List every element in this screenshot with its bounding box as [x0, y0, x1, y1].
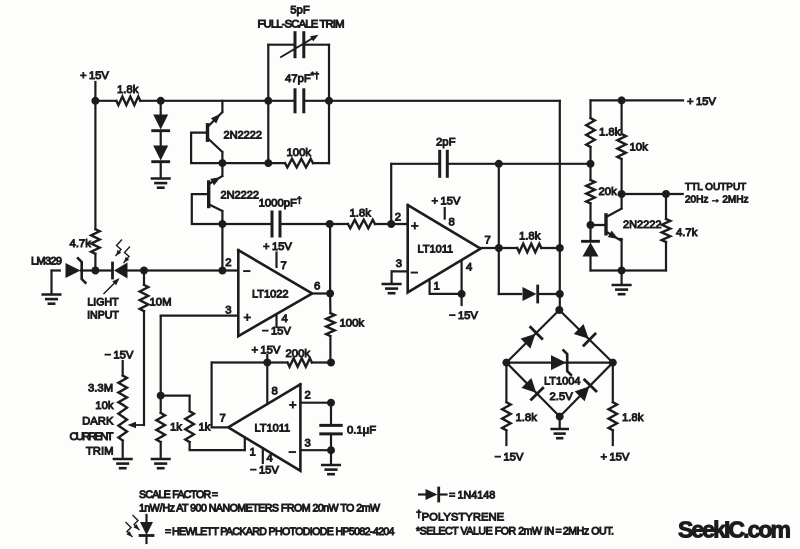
ground (0.1uF) [322, 465, 340, 474]
node bridge drive top [556, 244, 564, 252]
svg-text:−: − [243, 264, 251, 279]
node LT1011-1 pin2 [387, 220, 395, 228]
diode D8 (bridge LL) [521, 378, 542, 399]
node TTL collector [618, 190, 626, 198]
wire 2pF to divider [447, 163, 590, 165]
op-amp U2 LT1011 (comparator) [408, 205, 481, 292]
label 10k DARK CURRENT TRIM [70, 400, 114, 458]
node +15V/1.8k junction [91, 97, 99, 105]
node LM329/4.7k/photodiode [91, 267, 99, 275]
svg-text:LT1011: LT1011 [255, 423, 291, 435]
wire Q2 collector to node B [221, 211, 223, 224]
label 5pF FULL-SCALE TRIM [258, 5, 345, 31]
svg-text:4.7k: 4.7k [70, 238, 92, 250]
resistor 1.8k (bridge left) [502, 363, 537, 445]
svg-text:−: − [411, 265, 419, 280]
ground (1k) [152, 459, 170, 468]
svg-text:10k: 10k [95, 400, 114, 412]
diode D9 (bridge LR) [575, 380, 596, 401]
svg-text:0.1μF: 0.1μF [347, 425, 376, 437]
resistor R-1k #1 [156, 396, 182, 443]
label TTL OUTPUT 20Hz-2MHz [685, 182, 748, 206]
svg-text:1k: 1k [199, 422, 211, 434]
wire 1k #2 to U3 pin1 [190, 442, 245, 450]
wire output bus up [329, 224, 331, 294]
capacitor C1 5pF full-scale trim (variable) [268, 33, 329, 57]
svg-text:−: − [289, 445, 297, 460]
resistor 100k (to comparator divider) [326, 294, 364, 363]
svg-text:− 15V: − 15V [449, 310, 478, 322]
label +15V (bridge right) [601, 452, 630, 464]
node U2 pins 1-4 [458, 290, 466, 298]
label LM329 [31, 256, 62, 268]
wire 1k to ground [160, 442, 162, 458]
svg-text:1000pF†: 1000pF† [259, 195, 302, 210]
wire Q3 collector [620, 194, 622, 209]
wire LM329 anode [52, 271, 60, 294]
resistor 200k [286, 348, 312, 367]
svg-text:7: 7 [485, 235, 491, 247]
svg-text:7: 7 [220, 413, 226, 425]
pin 1 stub U3 [245, 437, 256, 458]
wire bridge edge LL [506, 363, 559, 417]
wire diode branch [499, 293, 521, 295]
svg-text:100k: 100k [287, 147, 312, 159]
node U3 pin3 [327, 446, 335, 454]
svg-text:4: 4 [267, 453, 273, 465]
svg-text:= HEWLETT PACKARD PHOTODIODE H: = HEWLETT PACKARD PHOTODIODE HP5082-4204 [165, 526, 395, 538]
ground (LM329) [43, 295, 61, 304]
svg-text:†POLYSTYRENE: †POLYSTYRENE [416, 510, 505, 524]
node 47pF right [325, 97, 333, 105]
wire feedback bus y=101 left segment [161, 100, 269, 102]
+15V supply label (top left) [80, 70, 109, 82]
zener D10 LT1004 2.5V [544, 350, 581, 403]
svg-text:6: 6 [314, 281, 320, 293]
svg-text:1.8k: 1.8k [599, 127, 621, 139]
diode legend symbol [419, 488, 447, 501]
svg-text:LIGHT: LIGHT [87, 297, 119, 309]
ground (output stage) [613, 285, 631, 294]
diode D1a (stack upper) [153, 101, 169, 131]
node A (Q1/Q2 junction) [218, 159, 226, 167]
svg-text:200k: 200k [286, 348, 311, 360]
wire 5pF right leg [328, 45, 330, 101]
wire bridge center [506, 362, 612, 364]
label pin 2 U2 [395, 212, 401, 224]
svg-text:1.8k: 1.8k [350, 208, 372, 220]
svg-text:= 1N4148: = 1N4148 [449, 490, 495, 502]
wire 200k rail [212, 361, 331, 363]
node 10M tap [140, 267, 148, 275]
capacitor C3 1000pF (polystyrene) [222, 195, 302, 236]
resistor 3.3M [88, 376, 127, 405]
resistor 1.8k (comparator out) [517, 231, 541, 253]
wire photodiode to LT1022 [128, 269, 239, 271]
resistor 1.8k (divider top) [586, 100, 621, 163]
svg-text:1.8k: 1.8k [516, 412, 538, 424]
svg-text:− 15V: − 15V [495, 452, 524, 464]
svg-text:20Hz → 2MHz: 20Hz → 2MHz [685, 195, 748, 206]
svg-text:100k: 100k [340, 318, 365, 330]
photodiode HP5082-4204 (light input) [113, 240, 130, 279]
svg-text:7: 7 [281, 260, 287, 272]
label SCALE FACTOR [139, 489, 218, 501]
node LT1022 output [326, 290, 334, 298]
node B (integrator summing node) [218, 220, 226, 228]
label scale factor detail [139, 503, 380, 515]
resistor 100k (feedback) [285, 147, 313, 167]
svg-text:1k: 1k [170, 422, 182, 434]
resistor 10M [140, 271, 172, 312]
node bridge right vertex [609, 359, 617, 367]
label pin 2 LT1022 [225, 257, 231, 269]
label pin 3 LT1022 [225, 305, 231, 317]
svg-text:− 15V: − 15V [262, 326, 291, 338]
label HP photodiode [165, 526, 395, 538]
node output bus top [326, 220, 334, 228]
pin 7 stub LT1022 +15V [263, 241, 292, 272]
ground (bridge) [552, 429, 568, 438]
zener D2 LM329 6.9V reference [66, 258, 86, 282]
pin 1 stub U2 [430, 279, 462, 294]
resistor 4.7k (photodiode bias) [70, 229, 100, 270]
wire node to photodiode [95, 269, 112, 271]
node emitter/ground [618, 267, 626, 275]
pin 4 stub LT1022 -15V [262, 313, 291, 338]
wire Q1 base loop [191, 133, 222, 164]
wire LT1022 output [312, 281, 330, 294]
svg-text:4: 4 [282, 313, 288, 325]
svg-text:8: 8 [272, 386, 278, 398]
wire feedback bus y=101 right segment to x=560 [329, 101, 560, 164]
wire U3 pin3 to ground [330, 450, 332, 464]
wire U3 output pin7 loop [212, 363, 229, 428]
svg-text:+ 15V: + 15V [601, 452, 630, 464]
wire LT1022 pin3 [161, 315, 239, 317]
node 4.7k tap [662, 190, 670, 198]
wire 10M down to trim wiper [143, 311, 145, 425]
node diode stack top [157, 97, 165, 105]
ground (U2 pin3) [383, 284, 401, 293]
op-amp U1 LT1022 [238, 250, 312, 336]
svg-text:1.8k: 1.8k [519, 231, 541, 243]
wire node B down to LT1022 pin 2 [221, 224, 223, 271]
wire U3 pin3 [300, 438, 331, 451]
node bridge left vertex [502, 359, 510, 367]
svg-text:2: 2 [395, 212, 401, 224]
wire 1000pF to node [280, 223, 348, 225]
capacitor C5 0.1uF [321, 403, 376, 451]
svg-text:DARK: DARK [82, 416, 114, 428]
label -15V (trim supply) [105, 350, 134, 362]
resistor 1.8k (bridge right) [609, 363, 644, 445]
node bridge top tap [556, 290, 564, 298]
resistor R-1k #2 [161, 396, 211, 443]
wire bridge edge UR [559, 310, 613, 363]
node 47pF left [264, 97, 272, 105]
label LIGHT INPUT with arrow [87, 278, 119, 322]
diode D1b (stack lower) [153, 132, 169, 162]
wire Q2 emitter to node A [221, 163, 223, 176]
label -15V (bridge left) [495, 452, 524, 464]
wire LM329 to node [81, 269, 95, 271]
node 2pF bus / x=499 [495, 160, 503, 168]
node 100k-left / caps-left leg [264, 101, 272, 167]
svg-text:20k: 20k [599, 186, 618, 198]
svg-text:10M: 10M [150, 297, 172, 309]
svg-text:TTL OUTPUT: TTL OUTPUT [685, 182, 746, 193]
diode D5 (base clamp) [583, 225, 599, 271]
svg-text:47pF*†: 47pF*† [285, 71, 319, 86]
svg-text:1nW / Hz AT 900 NANOMETERS FRO: 1nW / Hz AT 900 NANOMETERS FROM 20nW TO … [139, 503, 380, 515]
svg-text:2: 2 [225, 257, 231, 269]
svg-text:1: 1 [434, 281, 440, 293]
svg-text:INPUT: INPUT [87, 310, 119, 322]
svg-text:3: 3 [305, 438, 311, 450]
label select value [416, 526, 614, 538]
svg-text:+: + [411, 218, 419, 233]
svg-text:LT1011: LT1011 [418, 244, 454, 256]
label polystyrene [416, 510, 505, 524]
potentiometer 10k dark current trim [118, 405, 144, 441]
wire 5pF left leg [267, 45, 269, 101]
label +15V (U3 pin 8) [252, 345, 281, 363]
svg-text:1: 1 [250, 447, 256, 459]
svg-text:2.5V: 2.5V [550, 391, 574, 403]
transistor Q3 2N2222 [606, 209, 662, 240]
resistor 10k (pull-up) [617, 100, 648, 194]
wire diode to bridge node [539, 293, 560, 295]
wire bridge edge LR [560, 363, 613, 417]
svg-text:CURRENT: CURRENT [70, 431, 114, 443]
op-amp U3 LT1011 (start-up comparator) [228, 384, 300, 471]
wire node A to 100k [222, 162, 285, 164]
pin 8 stub U2 +15V [432, 196, 461, 229]
svg-text:2N2222: 2N2222 [224, 130, 263, 142]
diode D4 1N4148 (to bridge) [523, 286, 538, 302]
wire emitter rail [591, 269, 667, 271]
ground (trim pot) [114, 459, 132, 468]
wire bridge bottom to ground [559, 417, 561, 428]
svg-text:TRIM: TRIM [86, 446, 114, 458]
svg-text:2pF: 2pF [436, 137, 456, 149]
svg-text:4: 4 [466, 262, 472, 274]
capacitor C4 2pF [391, 137, 455, 177]
wire 1.8k to LT1011 pin2 [375, 223, 408, 225]
node bridge top vertex [555, 306, 563, 314]
diode D7 (bridge UR) [574, 324, 595, 345]
wire Q1 collector top [221, 101, 223, 112]
svg-text:+ 15V: + 15V [263, 241, 292, 253]
wire trim to ground [122, 441, 124, 459]
wire Q3 base [591, 224, 607, 226]
diode D6 (bridge UL) [521, 327, 542, 348]
capacitor C2 47pF [268, 71, 329, 112]
svg-text:FULL-SCALE TRIM: FULL-SCALE TRIM [258, 19, 345, 31]
wire 2pF left leg down [390, 164, 392, 224]
svg-text:− 15V: − 15V [105, 350, 134, 362]
svg-text:LM329: LM329 [31, 256, 62, 268]
svg-text:SeekIC.com: SeekIC.com [678, 517, 791, 543]
resistor 1.8k (top left, horizontal) [116, 84, 140, 105]
svg-text:3: 3 [396, 258, 402, 270]
node LT1022 pin2 tap [218, 267, 226, 275]
transistor Q2 2N2222 [209, 176, 259, 211]
photodiode legend symbol [126, 515, 153, 543]
wire Q2 base loop [192, 194, 223, 224]
svg-text:8: 8 [449, 217, 455, 229]
svg-text:+ 15V: + 15V [80, 70, 109, 82]
wire -15V to 3.3M [122, 361, 124, 376]
SeekIC.com watermark [678, 517, 791, 543]
svg-text:− 15V: − 15V [250, 465, 279, 477]
wire ground stub [620, 271, 622, 285]
node U2 output [495, 244, 503, 252]
node +15V/10k [618, 96, 626, 104]
transistor Q1 2N2222 [208, 112, 263, 152]
svg-text:2: 2 [305, 390, 311, 402]
wire x=499 vertical [498, 164, 500, 294]
node 1k junction [157, 392, 165, 400]
svg-text:*SELECT VALUE FOR 2mW IN = 2MH: *SELECT VALUE FOR 2mW IN = 2MHz OUT. [416, 526, 614, 538]
node U3 pin2 [327, 399, 335, 407]
svg-text:+ 15V: + 15V [432, 196, 461, 208]
svg-text:SCALE FACTOR =: SCALE FACTOR = [139, 489, 218, 501]
svg-text:5pF: 5pF [290, 5, 310, 17]
wire bridge edge UL [506, 310, 559, 363]
svg-text:+ 15V: + 15V [687, 96, 716, 108]
wire LT1022 pin3 leg down [160, 316, 162, 396]
wire +15V vertical rail x=95 [94, 82, 96, 229]
svg-text:+: + [289, 397, 297, 412]
wire U2 pin3 to ground [392, 258, 408, 283]
pin 8 stub U3 [267, 363, 277, 405]
wire +15V rail (right) [591, 96, 717, 108]
wire 100k right to output leg [313, 101, 329, 163]
svg-text:+: + [244, 310, 252, 325]
svg-text:3.3M: 3.3M [88, 383, 113, 395]
resistor 4.7k (emitter?) [662, 194, 698, 271]
node bridge bottom vertex [556, 413, 564, 421]
resistor 1.8k (into comparator) [348, 208, 375, 229]
svg-text:LT1004: LT1004 [544, 376, 581, 388]
svg-text:2N2222: 2N2222 [623, 219, 662, 231]
node divider mid [587, 160, 595, 168]
wire TTL output [622, 193, 683, 195]
svg-text:2N2222: 2N2222 [221, 190, 260, 202]
wire U2 output [481, 235, 518, 249]
wire Q3 emitter down [620, 239, 622, 271]
wire stack to ground [160, 163, 162, 178]
node +15V/pin8 junction (U3) [263, 359, 271, 367]
svg-text:4.7k: 4.7k [676, 227, 698, 239]
pin 4 stub U2 -15V [449, 261, 478, 322]
pin 4 stub U3 -15V [250, 448, 279, 476]
svg-text:3: 3 [225, 305, 231, 317]
label = 1N4148 [449, 490, 495, 502]
ground (diode stack) [152, 179, 170, 188]
svg-text:1.8k: 1.8k [117, 84, 139, 96]
wire U3 pin2 [300, 390, 331, 403]
resistor 20k (divider bottom) [586, 164, 617, 225]
svg-text:1.8k: 1.8k [622, 412, 644, 424]
node 200k/100k junction [327, 359, 335, 367]
wire 1.8k to diode stack node [95, 100, 160, 102]
wire x=560 vertical [559, 164, 561, 310]
wire 1.8k out to x560 [541, 247, 560, 249]
node Q3 base [587, 221, 595, 229]
wire Q1 collector to node A [221, 152, 223, 163]
svg-text:10k: 10k [630, 142, 649, 154]
svg-text:LT1022: LT1022 [252, 289, 289, 301]
